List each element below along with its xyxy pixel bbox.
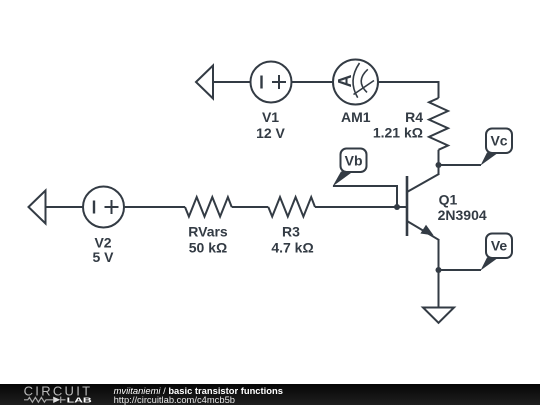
- label R3 value: [271, 224, 313, 256]
- label R4 value: [373, 109, 423, 140]
- ground: [423, 308, 454, 323]
- svg-text:AM1: AM1: [341, 109, 371, 125]
- wire: [292, 81, 334, 83]
- wire: [378, 81, 439, 83]
- wire corner down: [438, 81, 440, 98]
- svg-text:4.7 kΩ: 4.7 kΩ: [271, 240, 313, 256]
- svg-text:V2: V2: [94, 235, 111, 251]
- transistor Q1: [407, 165, 439, 240]
- wire: [438, 150, 440, 165]
- wire: [124, 206, 185, 208]
- label Q1: [438, 191, 487, 223]
- node arrow V2 negative terminal: [29, 191, 46, 224]
- svg-text:RVars: RVars: [188, 224, 228, 240]
- resistor R3: [268, 197, 315, 217]
- node junction collector: [436, 162, 442, 168]
- node junction base: [394, 204, 400, 210]
- svg-text:Ve: Ve: [491, 238, 508, 254]
- label V2 value: [92, 235, 114, 266]
- wire: [232, 206, 269, 208]
- svg-text:V1: V1: [262, 109, 279, 125]
- svg-text:50 kΩ: 50 kΩ: [189, 240, 227, 256]
- ammeter AM1: [333, 60, 378, 105]
- svg-text:Q1: Q1: [439, 191, 458, 207]
- wire: [213, 81, 251, 83]
- wire to Vc: [439, 164, 482, 166]
- svg-text:R4: R4: [405, 109, 423, 125]
- footer bar: [0, 384, 540, 405]
- flag Vc: [481, 129, 513, 166]
- wire to ground: [438, 270, 440, 307]
- node arrow V1 negative terminal: [196, 66, 213, 99]
- wire to Ve: [439, 269, 482, 271]
- wire to Vb: [333, 186, 397, 207]
- voltage source V1: [251, 62, 292, 103]
- CircuitLab logo: [0, 384, 110, 405]
- label AM1: [341, 109, 371, 125]
- wire: [46, 206, 84, 208]
- svg-text:2N3904: 2N3904: [438, 207, 487, 223]
- flag Ve: [481, 234, 513, 271]
- svg-text:Vb: Vb: [345, 153, 363, 169]
- svg-text:A: A: [335, 75, 355, 88]
- wire emitter down: [438, 240, 440, 270]
- svg-text:1.21 kΩ: 1.21 kΩ: [373, 124, 423, 140]
- node junction emitter: [436, 267, 442, 273]
- svg-text:LAB: LAB: [67, 395, 93, 404]
- voltage source V2: [83, 187, 124, 228]
- label RVars value: [188, 224, 228, 256]
- resistor R4: [429, 98, 448, 150]
- svg-text:Vc: Vc: [490, 133, 507, 149]
- flag Vb: [333, 149, 367, 187]
- label V1 value: [256, 109, 285, 141]
- svg-text:12 V: 12 V: [256, 125, 285, 141]
- wire base: [315, 206, 406, 208]
- svg-text:R3: R3: [282, 224, 300, 240]
- resistor RVars: [185, 197, 232, 217]
- svg-text:5 V: 5 V: [92, 249, 114, 265]
